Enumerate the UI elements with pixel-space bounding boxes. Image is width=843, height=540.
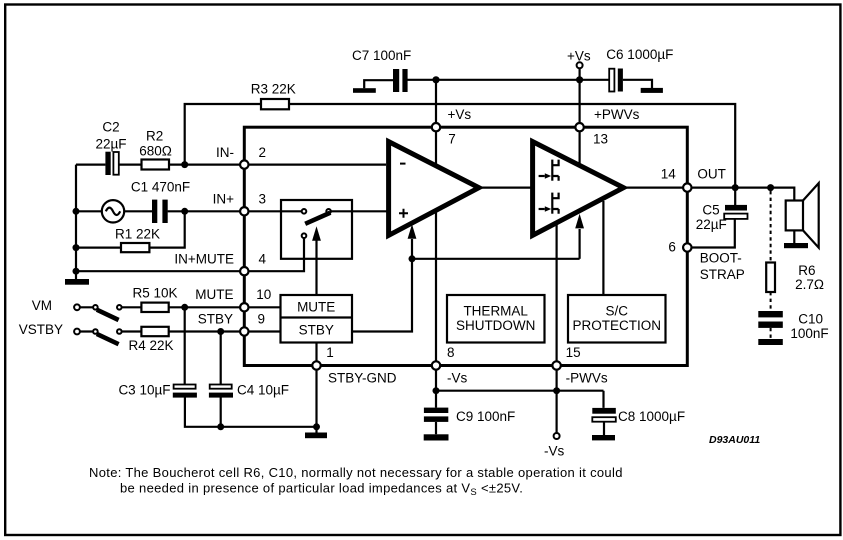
stby arrow into U1b [575,214,584,259]
pin 4 [174,251,266,275]
transistor mosfet M1 (upper, inside power stage) [539,160,559,181]
wire IN+MUTE line [76,238,304,271]
pin 9 [198,311,265,335]
svg-text:+Vs: +Vs [567,49,591,64]
node dot ground rail pin1 [313,423,320,430]
svg-text:4: 4 [259,251,267,266]
svg-text:STRAP: STRAP [700,267,745,282]
resistor R4 [128,327,173,353]
svg-text:C8 1000µF: C8 1000µF [618,409,685,424]
switch contact c (to IN+MUTE) [302,233,307,238]
pin 13 [575,107,639,147]
ground (speaker) [784,243,808,248]
svg-text:C4 10µF: C4 10µF [237,383,289,398]
pin 6 [668,240,744,282]
svg-text:IN+MUTE: IN+MUTE [174,252,234,267]
switch VSTBY pole [93,329,98,334]
svg-text:-Vs: -Vs [544,444,565,459]
node dot OUT at C5 [732,184,739,191]
switch VSTBY throw [117,329,122,334]
svg-text:100nF: 100nF [790,326,828,341]
capacitor C5 (bootstrap) [692,188,748,248]
svg-text:C1 470nF: C1 470nF [131,180,190,195]
svg-text:1: 1 [326,345,334,360]
svg-text:IN-: IN- [216,145,234,160]
svg-text:R3 22K: R3 22K [251,82,296,97]
svg-text:C9 100nF: C9 100nF [456,409,515,424]
wire pin7 supply stem [435,80,437,165]
svg-text:VM: VM [32,298,52,313]
IC U1 package box [244,127,687,365]
pin 7 [432,107,472,147]
note text [89,465,623,498]
node dot rail at pin13 [576,76,583,83]
node dot OUT at Boucherot [767,184,774,191]
capacitor C6 [606,47,673,92]
switch contact b [326,209,331,214]
resistor R2 [139,129,172,170]
svg-text:C7 100nF: C7 100nF [352,48,411,63]
resistor R3 [251,82,296,110]
svg-text:STBY-GND: STBY-GND [328,370,397,385]
resistor R6 [766,263,824,293]
svg-text:22µF: 22µF [95,136,126,151]
capacitor C7 [352,48,411,92]
block THERMAL SHUTDOWN [447,295,545,343]
svg-text:STBY: STBY [198,311,233,326]
svg-text:22µF: 22µF [696,217,727,232]
svg-text:C5: C5 [702,202,719,217]
node dot IN- junction [181,161,188,168]
svg-text:MUTE: MUTE [297,299,335,314]
switch VM terminal [74,304,80,310]
wire pin8 to U1a (-Vs internal) [435,212,437,363]
ground (C9) [424,434,449,440]
mute switch box [281,200,352,259]
speaker load [786,183,819,248]
pin 14 [661,167,726,192]
wire IN- line (C2/R2 to pin 2 and op-amp) [76,164,386,166]
node dot -Vs rail at pin15 [553,387,560,394]
switch arm (mute switch) [305,213,330,224]
svg-text:C6 1000µF: C6 1000µF [606,47,673,62]
pin 8 [432,345,468,385]
wire U1b output to pin 14 [627,187,685,189]
capacitor C8 [592,391,685,435]
ground (input bus) [65,271,89,285]
switch VSTBY terminal [74,329,80,335]
node dot bus at ground [73,268,80,275]
svg-text:C3 10µF: C3 10µF [118,383,170,398]
svg-text:THERMAL: THERMAL [463,303,528,318]
terminal -Vs [544,391,565,459]
svg-text:13: 13 [593,132,608,147]
pin 10 [195,287,271,311]
signal source generator [102,200,124,222]
resistor R1 [115,226,160,252]
op-amp U1b power stage [533,142,624,236]
wire R1 branch [76,211,185,247]
svg-text:8: 8 [447,345,455,360]
switch contact a [302,209,307,214]
mute control arrow into switch [312,226,321,295]
node dot bus at R1 [73,244,80,251]
svg-text:R4 22K: R4 22K [128,338,173,353]
svg-text:C10: C10 [798,312,823,327]
node dot C4 junction [217,328,224,335]
ground (C8) [592,435,615,440]
pin 3 [213,192,266,216]
svg-text:C2: C2 [102,120,119,135]
node dot MUTE junction [181,304,188,311]
svg-text:9: 9 [258,311,266,326]
switch VM arm [97,310,119,320]
switch VM throw [117,305,122,310]
wire dashed C10 to ground [770,328,772,339]
svg-text:-Vs: -Vs [447,370,468,385]
pin 15 [552,345,607,385]
wire +Vs top rail [408,79,610,81]
wire interstage (U1a out to U1b in) [482,187,533,189]
svg-text:7: 7 [448,132,456,147]
terminal +Vs [567,49,591,80]
node dot -Vs rail at pin8 [433,387,440,394]
svg-text:S/C: S/C [605,303,628,318]
svg-text:R6: R6 [798,263,815,278]
svg-text:PROTECTION: PROTECTION [572,318,661,333]
node dot rail at pin7 [432,76,439,83]
capacitor C4 [209,383,289,398]
svg-text:IN+: IN+ [213,192,235,207]
wire dashed Boucherot top [770,191,772,263]
svg-text:-PWVs: -PWVs [566,370,608,385]
svg-text:SHUTDOWN: SHUTDOWN [456,318,536,333]
capacitor C1 [131,180,190,224]
ground (C7) [353,80,393,93]
wire pin1 stem [315,343,317,366]
wire STBY row (R4 to pin 9) [80,330,281,332]
wire C4 branch [220,332,222,427]
svg-text:14: 14 [661,167,677,182]
pin 2 [216,145,266,169]
svg-text:3: 3 [259,192,267,207]
block MUTE/STBY [281,295,353,343]
wire IN+ line (source/C1 to pin 3) [76,210,302,212]
wire OUT line [691,188,794,201]
wire C3 branch [185,307,317,427]
switch VSTBY arm [97,334,119,344]
svg-text:R2: R2 [146,129,163,144]
ground (STBY-GND) [305,427,327,438]
wire -Vs rail [436,370,604,391]
wire R3 feedback loop [185,104,736,188]
svg-text:15: 15 [566,345,581,360]
svg-text:Note: The Boucherot cell R6, C: Note: The Boucherot cell R6, C10, normal… [89,465,623,480]
node dot stby net [409,255,416,262]
stby arrow into U1a [408,224,417,259]
svg-text:2: 2 [259,145,267,160]
capacitor C10 [758,311,828,341]
block S/C PROTECTION [568,295,666,343]
svg-text:R5 10K: R5 10K [132,286,177,301]
transistor mosfet M2 (lower, inside power stage) [539,193,559,214]
ground (C6) [623,80,663,93]
svg-text:MUTE: MUTE [195,287,233,302]
svg-text:+Vs: +Vs [448,107,472,122]
wire pin13 supply stem [578,80,580,164]
switch VM pole [93,305,98,310]
capacitor C3 [118,383,196,398]
ground (C10) [758,339,783,345]
svg-text:D93AU011: D93AU011 [709,434,760,446]
svg-text:be needed in presence of parti: be needed in presence of particular load… [120,481,523,499]
svg-text:OUT: OUT [697,167,726,182]
svg-text:STBY: STBY [299,322,334,337]
svg-text:2.7Ω: 2.7Ω [795,277,824,292]
wire MUTE row (R5 to pin 10) [80,306,281,308]
stby control net (dot under U1a) [352,259,580,332]
svg-text:VSTBY: VSTBY [19,322,63,337]
wire switch to op-amp + input [331,210,388,212]
capacitor C9 [424,391,515,435]
svg-text:BOOT-: BOOT- [700,250,742,265]
wire U1b to S/C protection [602,201,604,295]
pin 1 [312,345,396,385]
op-amp U1a input stage [389,142,479,236]
svg-text:R1 22K: R1 22K [115,226,160,241]
node dot ground rail C4 [217,423,224,430]
svg-text:+PWVs: +PWVs [594,107,640,122]
wire pin15 to U1b (-PWVs internal) [555,224,557,363]
wire dashed R6 to C10 [770,292,772,311]
svg-text:10: 10 [256,287,271,302]
node dot IN+ junction [181,208,188,215]
node dot bus at source [73,208,80,215]
wire pin1 to ground [315,370,317,427]
capacitor C2 [95,120,126,175]
wire left input bus [75,165,77,272]
svg-text:680Ω: 680Ω [139,144,172,159]
resistor R5 [132,286,177,312]
svg-text:6: 6 [668,240,676,255]
